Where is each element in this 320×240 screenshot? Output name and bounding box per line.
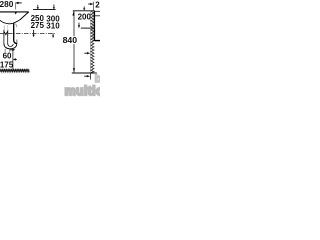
svg-text:200: 200	[78, 13, 92, 22]
urinal front lip diagonal	[20, 12, 29, 20]
wall left edge	[90, 11, 92, 73]
svg-text:275: 275	[31, 21, 45, 30]
arrow left at 175 level	[13, 58, 16, 60]
top reference line	[73, 10, 95, 12]
down-arrow at x54	[53, 4, 55, 7]
inlet pipe stub through wall	[95, 10, 100, 12]
svg-text:840: 840	[63, 35, 78, 45]
below-floor arrow	[84, 75, 87, 77]
floor line right view	[72, 72, 97, 74]
svg-text:2: 2	[95, 0, 100, 9]
wall hatch strip	[91, 11, 94, 72]
centerline (dash-dot)	[0, 33, 56, 35]
floor hatch left view	[0, 70, 29, 72]
200 upper arrow (down onto top line)	[83, 6, 85, 8]
floor line left view	[0, 68, 30, 70]
urinal top line (side view)	[0, 11, 29, 13]
drain stub lines to floor (gray)	[4, 49, 6, 52]
svg-text:175: 175	[0, 60, 14, 69]
down-arrow at x38	[37, 5, 39, 8]
wall right edge (thick)	[93, 11, 95, 41]
urinal top edge line	[81, 27, 95, 29]
top dimension line (inlet heights)	[33, 9, 56, 11]
extension line above wall	[93, 2, 95, 11]
svg-text:280: 280	[0, 0, 14, 9]
watermark multic	[65, 84, 109, 98]
inlet position down-arrow on centerline	[52, 34, 54, 37]
svg-text:60: 60	[3, 51, 12, 60]
trap bottom outer arc	[4, 43, 17, 48]
840 top arrowhead	[72, 11, 74, 15]
water-seal M mark	[4, 31, 8, 36]
small tick below top line at 280 ext	[15, 12, 17, 14]
below-floor extension line	[90, 73, 92, 80]
200 lower arrow (down onto urinal top line)	[78, 23, 80, 26]
840 dim line lower segment	[73, 44, 75, 72]
trap inlet pipe (gray)	[3, 26, 5, 32]
trap bottom inner arc	[8, 44, 14, 46]
dim arrow 280 (points left)	[15, 2, 18, 5]
840 dim line upper segment	[73, 11, 75, 37]
trap outlet thick line	[14, 23, 17, 43]
extension line x12.8	[12, 48, 14, 70]
watermark stray letter b	[95, 73, 102, 85]
840 bottom arrowhead	[73, 68, 75, 72]
svg-text:310: 310	[46, 22, 60, 31]
trap inner-left wall	[3, 36, 5, 44]
inlet position tick at x33.6	[33, 30, 35, 35]
floor hatch band underlay	[0, 69, 30, 72]
drain pipe line through wall (thick)	[95, 40, 100, 42]
arrow right of 60	[10, 49, 13, 51]
extension line for 280	[15, 2, 17, 9]
outlet pipe outer wall top curve	[15, 24, 17, 28]
drain spigot arrow at wall	[84, 52, 88, 54]
top-right arrow (points right)	[88, 3, 91, 5]
outlet pipe outer wall	[16, 40, 18, 44]
urinal under-bowl curve	[0, 20, 20, 24]
